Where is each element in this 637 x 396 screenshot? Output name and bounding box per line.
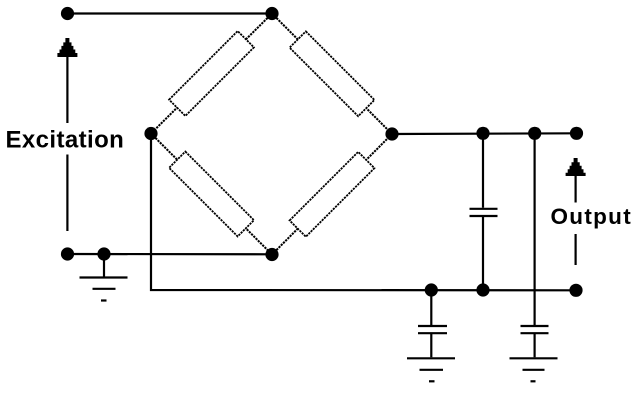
svg-text:Excitation: Excitation — [6, 127, 125, 154]
svg-text:Output: Output — [551, 204, 633, 229]
